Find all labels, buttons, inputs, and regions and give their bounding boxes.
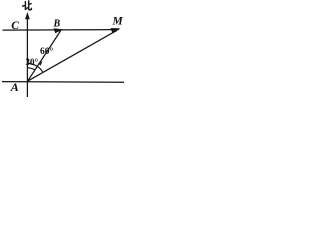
ray A to M: [28, 30, 118, 81]
arrowhead at B: [54, 28, 64, 33]
svg-text:A: A: [10, 80, 19, 94]
horizontal line through A: [2, 81, 124, 84]
30 degree arc at A: [28, 68, 35, 70]
svg-text:30°: 30°: [26, 57, 39, 67]
北 label (drawn strokes): [23, 1, 32, 10]
svg-text:B: B: [53, 19, 61, 30]
horizontal line through C B M: [3, 29, 120, 32]
arrowhead at M: [111, 28, 121, 33]
north ray (vertical line from A): [26, 18, 28, 98]
ray A to B: [28, 31, 61, 82]
svg-text:C: C: [11, 20, 19, 32]
north arrowhead: [25, 12, 30, 19]
svg-text:M: M: [112, 15, 124, 27]
small arrow mark on 60 arc near AB: [38, 61, 42, 66]
svg-text:60°: 60°: [40, 46, 54, 57]
60 degree arc at A: [28, 63, 44, 72]
